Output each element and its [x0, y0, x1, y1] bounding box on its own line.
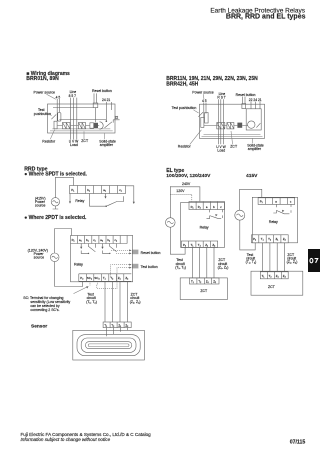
svg-text:Z₁: Z₁	[205, 243, 208, 247]
svg-text:Z₂: Z₂	[212, 243, 215, 247]
svg-text:P₁: P₁	[191, 205, 194, 209]
svg-text:Sensor: Sensor	[31, 323, 47, 329]
svg-text:● Where 2PDT is selected.: ● Where 2PDT is selected.	[24, 215, 87, 221]
svg-text:pushbutton: pushbutton	[34, 112, 51, 116]
svg-text:ZCT: ZCT	[268, 285, 276, 289]
svg-text:source: source	[35, 204, 46, 208]
svg-text:Power source: Power source	[192, 91, 213, 95]
svg-text:Relay: Relay	[269, 220, 278, 224]
svg-text:(Z₁, Z₂): (Z₁, Z₂)	[287, 260, 298, 264]
svg-text:Reset button: Reset button	[236, 93, 256, 97]
svg-text:240V: 240V	[182, 182, 191, 186]
svg-text:Z₁: Z₁	[118, 323, 121, 327]
svg-text:EL type: EL type	[166, 168, 184, 174]
svg-text:BRR01N, 89N: BRR01N, 89N	[26, 76, 59, 82]
svg-text:P₂: P₂	[183, 243, 186, 247]
svg-text:ZCT: ZCT	[200, 289, 208, 293]
svg-text:amplifier: amplifier	[100, 143, 114, 147]
svg-text:Load: Load	[70, 143, 78, 147]
svg-text:T₂: T₂	[198, 243, 201, 247]
svg-text:c₁: c₁	[93, 238, 95, 242]
svg-text:Relay: Relay	[75, 199, 84, 203]
svg-text:T₂: T₂	[268, 237, 271, 241]
svg-text:c₂: c₂	[115, 238, 118, 242]
svg-text:Resistor: Resistor	[42, 139, 56, 143]
svg-text:P₂: P₂	[198, 205, 201, 209]
svg-text:Resistor: Resistor	[178, 145, 192, 149]
svg-text:ZCT: ZCT	[230, 144, 238, 148]
svg-text:BRR42H, 45H: BRR42H, 45H	[166, 81, 198, 87]
svg-text:T₂: T₂	[198, 280, 201, 284]
svg-text:(Z₁, Z₂): (Z₁, Z₂)	[130, 300, 141, 304]
svg-text:b₁: b₁	[86, 238, 89, 242]
svg-text:amplifier: amplifier	[248, 147, 262, 151]
svg-text:07/115: 07/115	[290, 439, 306, 445]
svg-text:T₁: T₁	[191, 280, 194, 284]
svg-text:SC₁: SC₁	[87, 276, 92, 280]
svg-text:T₁: T₁	[103, 276, 106, 280]
svg-text:T₂: T₂	[111, 323, 114, 327]
svg-text:R S T: R S T	[217, 95, 225, 99]
svg-text:Z₂: Z₂	[283, 237, 286, 241]
svg-text:Information subject to change: Information subject to change without no…	[21, 437, 111, 442]
svg-text:T₁: T₁	[262, 274, 265, 278]
svg-text:P₁: P₁	[71, 188, 74, 192]
svg-text:Relay: Relay	[74, 262, 83, 266]
svg-text:P₂: P₂	[80, 276, 83, 280]
svg-text:a₁: a₁	[79, 238, 82, 242]
svg-text:Test button: Test button	[141, 265, 158, 269]
svg-text:24 21: 24 21	[102, 98, 110, 102]
svg-text:BRR, RRD and EL types: BRR, RRD and EL types	[226, 14, 306, 21]
svg-text:T₂: T₂	[269, 274, 272, 278]
svg-text:Z₁: Z₁	[206, 280, 209, 284]
svg-text:Reset button: Reset button	[141, 251, 161, 255]
svg-text:Z₁: Z₁	[118, 276, 121, 280]
svg-text:4 5: 4 5	[56, 95, 61, 99]
svg-text:(Z₁, Z₂): (Z₁, Z₂)	[218, 266, 229, 270]
svg-text:source: source	[34, 256, 45, 260]
svg-text:(T₁, T₂): (T₁, T₂)	[175, 266, 186, 270]
svg-text:Test pushbutton: Test pushbutton	[172, 106, 197, 110]
svg-text:Z₂: Z₂	[283, 274, 286, 278]
svg-text:T₁: T₁	[191, 243, 194, 247]
svg-text:Z₂: Z₂	[125, 323, 128, 327]
svg-text:100/200V, 120/240V: 100/200V, 120/240V	[166, 173, 211, 179]
svg-text:Power source: Power source	[34, 91, 55, 95]
svg-text:T₁: T₁	[261, 237, 264, 241]
svg-text:ZCT: ZCT	[81, 139, 89, 143]
svg-text:Z₂: Z₂	[213, 280, 216, 284]
svg-text:120V: 120V	[176, 189, 185, 193]
svg-text:● Where SPDT is selected.: ● Where SPDT is selected.	[24, 172, 87, 178]
svg-text:P₁: P₁	[260, 200, 263, 204]
svg-text:SC₂: SC₂	[94, 276, 100, 280]
svg-text:Relay: Relay	[200, 226, 209, 230]
svg-text:Z₁: Z₁	[276, 237, 279, 241]
svg-text:Z₂: Z₂	[125, 276, 128, 280]
svg-text:Reset button: Reset button	[92, 89, 112, 93]
svg-text:415V: 415V	[246, 173, 258, 179]
svg-text:(T₁, T₂): (T₁, T₂)	[86, 300, 97, 304]
svg-text:connecting 2 SC’s.: connecting 2 SC’s.	[30, 308, 59, 312]
svg-text:b₁: b₁	[87, 188, 90, 192]
svg-text:Load: Load	[217, 148, 225, 152]
svg-text:Z₁: Z₁	[276, 274, 279, 278]
svg-text:8 5 7: 8 5 7	[69, 94, 76, 98]
svg-text:a₁: a₁	[103, 188, 106, 192]
svg-text:T₁: T₁	[104, 323, 107, 327]
svg-text:b₂: b₂	[107, 238, 110, 242]
svg-text:a₂: a₂	[100, 238, 103, 242]
svg-text:P₂: P₂	[253, 237, 256, 241]
svg-text:P₁: P₁	[72, 238, 75, 242]
svg-text:4 5: 4 5	[202, 99, 207, 103]
svg-text:T₂: T₂	[110, 276, 113, 280]
svg-text:(T₁, T₂): (T₁, T₂)	[246, 260, 257, 264]
svg-text:c₁: c₁	[119, 188, 122, 192]
